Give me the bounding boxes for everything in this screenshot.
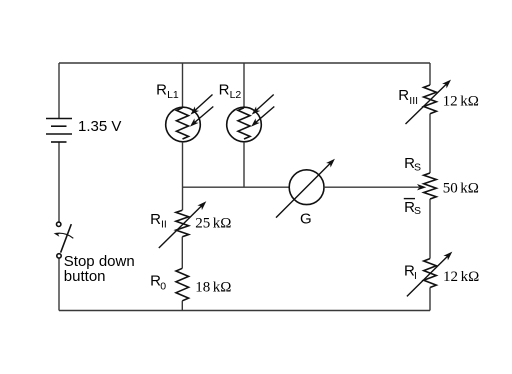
label RS xyxy=(404,155,421,173)
label RL2 xyxy=(219,81,242,101)
resistor R0 xyxy=(176,268,189,301)
variable resistor RI xyxy=(407,252,452,297)
photoresistor RL1 xyxy=(166,95,214,142)
potentiometer RS xyxy=(424,173,437,199)
label RL1 xyxy=(156,81,179,101)
wire mid rail right (wiper of RS) xyxy=(324,184,426,190)
wire RIII to RS xyxy=(429,114,431,173)
wire top rail xyxy=(59,62,430,64)
svg-text:25kΩ: 25kΩ xyxy=(195,216,231,232)
label RIII xyxy=(398,87,418,107)
wire RI to bottom rail xyxy=(429,288,431,311)
wire left rail lower xyxy=(58,258,60,310)
variable resistor RII xyxy=(159,201,207,248)
svg-text:II: II xyxy=(161,219,167,231)
label RS-bar xyxy=(404,199,421,218)
svg-text:12kΩ: 12kΩ xyxy=(443,93,479,109)
svg-text:18kΩ: 18kΩ xyxy=(195,279,231,295)
svg-text:0: 0 xyxy=(160,280,166,292)
svg-text:R: R xyxy=(219,81,230,98)
wire left rail middle xyxy=(58,142,60,222)
svg-text:L2: L2 xyxy=(230,89,242,101)
value 50 kOhm xyxy=(443,181,479,197)
photoresistor RL2 xyxy=(227,95,275,142)
label RI xyxy=(404,262,417,282)
label RII xyxy=(150,211,167,231)
wire mid rail left xyxy=(183,186,290,188)
value 18 kOhm xyxy=(195,279,231,295)
value 12 kOhm top xyxy=(443,93,479,109)
svg-text:G: G xyxy=(300,211,312,228)
svg-text:L1: L1 xyxy=(167,89,179,101)
wire R0 to bottom rail xyxy=(181,301,183,311)
wire left rail upper xyxy=(58,63,60,119)
switch stop-down button xyxy=(54,222,74,258)
svg-text:12kΩ: 12kΩ xyxy=(443,269,479,285)
svg-text:R: R xyxy=(398,87,409,104)
svg-text:S: S xyxy=(414,162,421,174)
galvanometer G xyxy=(276,159,335,218)
svg-text:50kΩ: 50kΩ xyxy=(443,181,479,197)
wire RL1 branch to mid xyxy=(182,142,184,210)
wire right rail top xyxy=(429,63,431,85)
wire RS to RI xyxy=(429,199,431,259)
svg-text:R: R xyxy=(156,81,167,98)
wire RL2 branch to mid rail xyxy=(243,142,245,187)
svg-text:S: S xyxy=(414,205,421,217)
wire RL1 branch upper xyxy=(182,63,184,107)
svg-text:III: III xyxy=(409,95,418,107)
label R0 xyxy=(150,273,166,293)
svg-text:button: button xyxy=(64,268,106,285)
svg-text:I: I xyxy=(414,270,417,282)
wire bottom rail xyxy=(59,310,430,312)
label G xyxy=(300,211,312,228)
svg-text:1.35 V: 1.35 V xyxy=(78,118,121,135)
wire RL2 branch upper xyxy=(243,63,245,107)
value 12 kOhm bottom xyxy=(443,269,479,285)
battery 1.35 V xyxy=(46,119,72,143)
svg-text:R: R xyxy=(150,211,161,228)
value 25 kOhm xyxy=(195,216,231,232)
wire RII to R0 xyxy=(181,237,183,269)
value label 1.35 V xyxy=(78,118,121,135)
variable resistor RIII xyxy=(406,80,452,124)
label Stop down button xyxy=(64,253,135,285)
